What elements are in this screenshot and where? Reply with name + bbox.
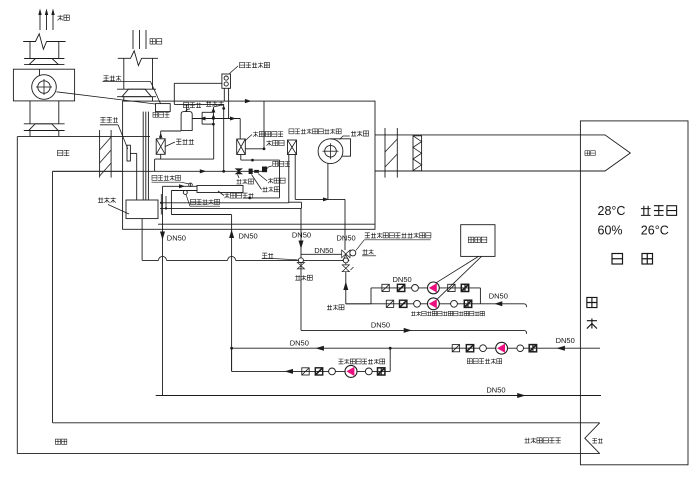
temp sensor 温度传感器 — [183, 190, 187, 194]
label 电动三通阀(开关信号) — [356, 233, 431, 251]
label 水冷冷凝器 — [218, 191, 254, 198]
manifold frame — [346, 288, 527, 307]
return plenum top edge — [18, 135, 150, 137]
sensor wire — [130, 153, 136, 200]
label DN50 boiler — [489, 292, 508, 301]
dehumidifier unit enclosure — [123, 101, 375, 229]
svg-text:60%: 60% — [598, 224, 623, 238]
hot water in pipe — [343, 272, 371, 304]
label DN50 #3b — [314, 246, 333, 255]
label 过滤器 — [258, 174, 285, 184]
flex connector 2 — [24, 124, 65, 131]
svg-text:DN50: DN50 — [486, 386, 505, 395]
3-way valve 电动三通阀 — [342, 250, 356, 261]
fan drain wire — [327, 163, 329, 199]
fresh air flex connector — [117, 89, 156, 97]
label DN50 #3 — [292, 230, 311, 239]
label DN50 pool1 — [290, 339, 309, 348]
pump 热水泵#1 — [428, 282, 440, 294]
flow switch 水流量开关 — [189, 183, 193, 187]
exhaust air arrows (排风) — [38, 9, 54, 31]
svg-text:DN50: DN50 — [290, 339, 309, 348]
return duct outer — [17, 136, 599, 453]
bypass valves — [302, 368, 336, 375]
exhaust duct upper — [30, 42, 59, 59]
heater-fan wire — [295, 197, 345, 250]
label 热水进 — [327, 305, 344, 310]
svg-text:28°C: 28°C — [598, 204, 626, 218]
compressor 压缩机 — [181, 112, 192, 131]
supply fan 送风机 — [318, 139, 350, 164]
label 泳池加热系统水泵 — [338, 359, 384, 364]
top branch valves right — [448, 284, 469, 291]
fresh air duct stub — [124, 97, 153, 101]
svg-text:DN50: DN50 — [371, 320, 390, 329]
pool room — [580, 121, 688, 465]
discharge pipe to condenser — [174, 83, 222, 104]
riser DN50 #3 — [299, 208, 342, 330]
label 储液器 — [267, 161, 290, 168]
label 室内冷凝器 — [245, 131, 283, 140]
wire L4 — [158, 223, 375, 225]
label 热水锅炉循环水泵(一用一备) — [411, 311, 484, 315]
fresh air duct — [124, 58, 153, 89]
solenoid manifold — [192, 104, 240, 125]
pipe on top edge — [245, 99, 266, 150]
text 空 — [587, 297, 597, 307]
label 排风 — [58, 15, 70, 20]
discharge line — [174, 104, 223, 111]
control box 控制箱 (pool) — [461, 225, 495, 257]
label 泳池循环水泵 — [467, 359, 501, 364]
condenser pipes — [224, 88, 228, 118]
suction line — [159, 131, 181, 139]
label 水阀#2 — [362, 249, 376, 256]
label 水流量开关 — [152, 175, 190, 184]
bottom branch valves right — [451, 300, 472, 307]
pump 泳池加热系统水泵 — [345, 365, 357, 377]
pool supply line — [156, 393, 601, 398]
return duct inner — [53, 171, 600, 422]
label 回风 (plenum) — [58, 150, 70, 155]
bypass valves right — [365, 368, 385, 375]
pool circ pump group — [452, 345, 486, 352]
label 蒸发器 with leader — [165, 139, 194, 146]
label 接机组回风管 — [524, 438, 560, 443]
pool circ pump group right — [517, 345, 537, 352]
text 60% — [598, 224, 623, 238]
fresh air duct lines — [133, 30, 146, 49]
pump 热水泵#2 — [428, 298, 440, 310]
bypass pipe — [232, 347, 392, 374]
label 电磁阀(liquid) — [252, 175, 280, 192]
label DN50 y330 — [371, 320, 390, 329]
label 控制箱 with leader — [98, 197, 129, 214]
exhaust duct break symbol — [23, 34, 65, 49]
exhaust fan box — [13, 69, 74, 101]
label 单向阀 — [266, 140, 284, 145]
return duct line to unit — [53, 170, 123, 172]
supply filter — [413, 136, 422, 171]
solenoid valve (liquid) — [249, 169, 253, 174]
label 操作屏 with leader — [103, 75, 161, 103]
label 控制箱2 — [468, 237, 486, 242]
suction header — [155, 124, 214, 171]
pump 泳池循环水泵 — [496, 342, 508, 354]
bottom branch valves — [386, 300, 420, 307]
riser DN50 #1 — [160, 186, 165, 395]
bundle connector wires — [160, 194, 167, 215]
label DN50 #1 — [167, 233, 186, 242]
label DN50 manifold — [393, 275, 412, 284]
sensor 传感器 — [127, 145, 130, 161]
leader fan to unit — [57, 92, 156, 104]
svg-text:26°C: 26°C — [641, 224, 669, 238]
liquid line — [53, 169, 263, 173]
wire L3 — [171, 214, 231, 216]
svg-text:DN50: DN50 — [556, 336, 575, 345]
svg-text:DN50: DN50 — [489, 292, 508, 301]
control leaders to pumps — [436, 256, 482, 298]
globe valve (3way) — [342, 263, 353, 272]
outdoor condenser 室外冷凝器 — [222, 74, 231, 88]
svg-text:DN50: DN50 — [239, 231, 258, 240]
label 温度传感器 — [186, 195, 220, 207]
text 泳池水 — [641, 206, 677, 216]
supply damper — [385, 128, 397, 178]
indoor condenser bottom piping — [241, 155, 280, 200]
label 新风 — [150, 39, 162, 44]
svg-text:DN50: DN50 — [292, 230, 311, 239]
svg-text:DN50: DN50 — [393, 275, 412, 284]
label 水阀#1 — [262, 253, 298, 260]
aux heater 辅助加热 — [288, 140, 297, 155]
valve circle (3way) — [343, 258, 348, 263]
evaporator 蒸发器 — [156, 139, 165, 155]
label 除湿机 — [153, 112, 169, 117]
label 热水出 — [295, 275, 312, 280]
exhaust duct below fan — [30, 101, 59, 124]
label 压缩机 with leader — [183, 102, 201, 111]
water cooled condenser 水冷冷凝器 — [197, 186, 243, 193]
text 26C — [641, 224, 669, 238]
label 回风 bottom-left — [55, 439, 66, 444]
liquid drop line — [222, 104, 225, 172]
wire to water line — [141, 219, 143, 261]
svg-text:DN50: DN50 — [314, 246, 333, 255]
water line y260 — [142, 256, 343, 260]
label DN50 pool2 — [556, 336, 575, 345]
return damper — [100, 130, 112, 178]
label DN50 #2 — [239, 231, 258, 240]
text 泳池 — [612, 254, 653, 265]
label 电磁阀(top) — [206, 101, 224, 106]
label 回风 bottom-right — [592, 438, 602, 443]
text 28C — [598, 204, 626, 218]
expansion valve 膨胀阀 — [236, 169, 242, 174]
supply duct — [375, 135, 580, 171]
pool water suction line — [231, 346, 600, 351]
condenser outlet line — [171, 191, 197, 215]
condenser right pipe — [245, 148, 264, 150]
wire L2 — [160, 202, 302, 208]
indoor condenser feed — [239, 119, 241, 140]
fresh air break symbol — [118, 51, 158, 66]
indoor condenser 室内冷凝器 — [237, 139, 246, 155]
return chevron — [585, 423, 600, 454]
wire L1 — [160, 202, 289, 204]
label 传感器 with leader — [100, 117, 128, 149]
receiver 储液器 — [262, 167, 267, 173]
label 送风 — [585, 151, 595, 156]
hot water out line y330 — [301, 328, 526, 334]
heater wires — [289, 155, 295, 203]
riser DN50 #2 — [229, 215, 234, 372]
globe valve below — [297, 263, 304, 269]
wires panel to control box — [143, 112, 148, 200]
label 送风机 with leader — [340, 131, 369, 140]
operator panel box (除湿机) — [156, 104, 171, 112]
top branch valves — [382, 284, 419, 291]
evap bottom pipe — [160, 154, 162, 159]
label 膨胀阀 — [236, 175, 253, 185]
supply air arrow 送风 — [580, 135, 630, 171]
exhaust duct stub — [30, 131, 59, 137]
control box 控制箱 (unit) — [126, 200, 158, 219]
svg-text:DN50: DN50 — [337, 233, 356, 242]
riser DN50 #4 label — [337, 233, 356, 242]
label DN50 供水 — [486, 386, 505, 395]
flex connector 1 — [24, 59, 64, 65]
text 气 — [587, 318, 597, 328]
svg-text:DN50: DN50 — [167, 233, 186, 242]
label 辅助加热(冬季用) — [289, 129, 341, 134]
condenser inlet line — [163, 184, 198, 188]
label 室外冷凝器 with leader — [230, 62, 270, 73]
valve circle 水阀#1 — [298, 258, 303, 263]
filter 过滤器 — [254, 170, 259, 173]
exhaust fan — [32, 69, 57, 99]
